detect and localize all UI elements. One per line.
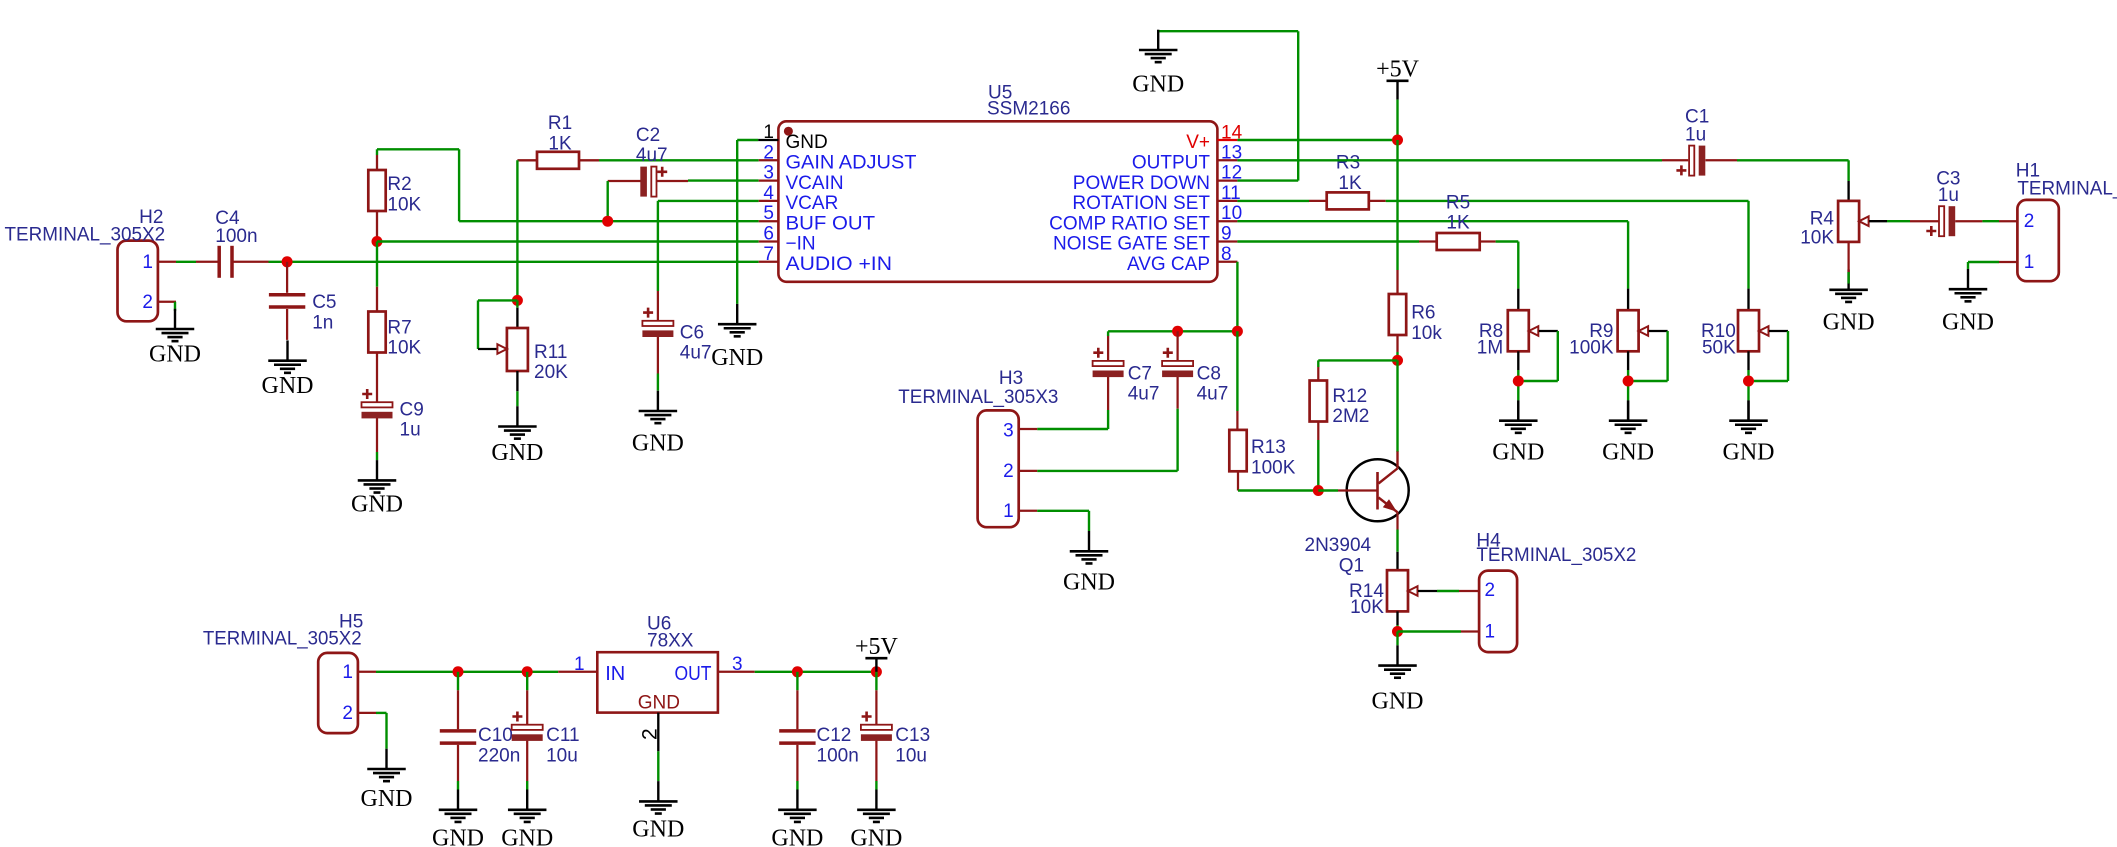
wire R9 wiper loop [1628, 331, 1668, 381]
power +5V top symbol [1396, 81, 1398, 100]
junction node B (-IN) [372, 236, 383, 247]
junction C12 node [792, 666, 803, 677]
wire R11 wiper loop [478, 300, 517, 349]
wire R1 right to U5 pin 2 (GAIN ADJUST) [599, 159, 759, 161]
svg-text:1K: 1K [1446, 212, 1470, 233]
svg-text:GND: GND [262, 373, 314, 399]
wire POWER DOWN net to top ground [1158, 31, 1298, 180]
ground GND below R9 [1602, 400, 1654, 465]
wire R14 bottom to node F [1396, 611, 1398, 631]
svg-text:GND: GND [711, 345, 763, 371]
wire R4 bottom to ground [1847, 242, 1849, 284]
wire C13 to ground [875, 781, 877, 790]
svg-text:4u7: 4u7 [1197, 384, 1229, 405]
svg-text:GND: GND [632, 817, 684, 843]
svg-text:−IN: −IN [786, 234, 816, 255]
svg-text:1: 1 [2024, 252, 2035, 273]
wire R12 top to node E [1318, 360, 1397, 380]
svg-text:1: 1 [574, 654, 585, 675]
wire R4 wiper to C3 [1869, 220, 1910, 222]
svg-text:C10: C10 [478, 725, 513, 746]
svg-text:R3: R3 [1336, 153, 1360, 174]
svg-text:GND: GND [1823, 310, 1875, 336]
svg-text:7: 7 [763, 244, 774, 265]
svg-text:78XX: 78XX [647, 631, 694, 652]
U5 pin 6 -IN [759, 224, 816, 255]
junction R9 bottom [1623, 376, 1634, 387]
ground GND below R4 [1823, 270, 1875, 336]
ground GND top [1132, 30, 1184, 98]
svg-text:4u7: 4u7 [680, 343, 712, 364]
resistor R1 1K [517, 152, 599, 169]
svg-text:2: 2 [142, 292, 153, 313]
junction base node [1313, 485, 1324, 496]
capacitor C4 100n [196, 208, 269, 278]
wire C3 to H1 pin2 [1982, 220, 1999, 222]
svg-text:1: 1 [763, 122, 774, 143]
U6 pin 3 OUT lead [718, 654, 755, 675]
svg-text:SSM2166: SSM2166 [987, 99, 1070, 120]
svg-text:TERMINAL_305X2: TERMINAL_305X2 [5, 225, 166, 246]
ground GND below C9 [351, 460, 403, 517]
svg-text:GND: GND [632, 430, 684, 456]
svg-text:GND: GND [771, 826, 823, 847]
svg-text:R2: R2 [387, 174, 411, 195]
wire R2 bottom to node B [376, 239, 378, 242]
wire node F to H4 pin1 [1398, 630, 1462, 632]
U5 pin 1 GND [758, 122, 828, 153]
svg-text:GND: GND [1132, 72, 1184, 98]
U6 pin 1 IN lead [558, 654, 597, 675]
U5 pin 5 BUF OUT [759, 203, 876, 234]
svg-text:1u: 1u [1938, 185, 1959, 206]
op-amp U5 SSM2166 body [778, 83, 1217, 282]
capacitor C7 4u7 polarized [1093, 336, 1160, 410]
ground GND below C11 [501, 790, 553, 847]
svg-text:1n: 1n [312, 312, 333, 333]
svg-text:10K: 10K [387, 338, 421, 359]
junction node D (BUF OUT / C2) [602, 216, 613, 227]
wire R14 wiper to H4 pin2 [1418, 590, 1459, 592]
wire H2 pin2 down to ground [174, 302, 176, 311]
wire R8 wiper loop [1518, 331, 1558, 381]
svg-text:GND: GND [1723, 440, 1775, 466]
wire R13 bottom to base node [1238, 471, 1318, 490]
ground GND at H3 pin1 [1063, 531, 1115, 596]
ground GND below C5 [262, 340, 314, 398]
capacitor C13 10u polarized [861, 672, 930, 781]
wire net AUDIO+IN row to U5 pin 7 [287, 261, 759, 263]
svg-text:ROTATION SET: ROTATION SET [1072, 193, 1210, 214]
power +5V bottom symbol [875, 658, 877, 672]
svg-text:2: 2 [763, 142, 774, 163]
ground GND below C13 [850, 790, 902, 847]
wire R2 top to BUF OUT vertical [377, 149, 459, 221]
wire C10 to ground [457, 781, 459, 790]
svg-text:220n: 220n [478, 745, 520, 766]
svg-text:GND: GND [1492, 440, 1544, 466]
svg-text:1u: 1u [1685, 125, 1706, 146]
wire C6 to ground [657, 374, 659, 391]
svg-text:R11: R11 [534, 342, 567, 363]
U5 pin 10 COMP RATIO SET [1049, 203, 1242, 234]
connector H3 TERMINAL_305X3 [898, 368, 1058, 527]
svg-text:C2: C2 [636, 125, 660, 146]
wire C4 to node A [269, 261, 288, 263]
svg-text:4u7: 4u7 [1128, 384, 1160, 405]
wire net BUF OUT row to U5 pin 5 [459, 220, 759, 222]
svg-text:R4: R4 [1810, 209, 1835, 230]
svg-text:100n: 100n [215, 226, 257, 247]
junction C11 node [522, 666, 533, 677]
svg-text:10K: 10K [1800, 228, 1834, 249]
U5 pin 9 NOISE GATE SET [1053, 224, 1237, 255]
svg-text:OUT: OUT [675, 663, 712, 685]
svg-text:10K: 10K [387, 194, 421, 215]
svg-text:C7: C7 [1128, 363, 1152, 384]
svg-text:2N3904: 2N3904 [1305, 535, 1372, 556]
svg-text:100n: 100n [817, 745, 859, 766]
capacitor C11 10u polarized [512, 672, 580, 781]
junction node A [282, 256, 293, 267]
svg-text:5: 5 [763, 203, 774, 224]
ground GND below C6 [632, 391, 684, 457]
svg-text:1: 1 [1485, 622, 1496, 643]
svg-text:+5V: +5V [855, 634, 899, 660]
transistor Q1 2N3904 [1305, 451, 1409, 576]
svg-text:GND: GND [491, 440, 543, 466]
wire C2 left down to BUF OUT row [607, 181, 609, 221]
ground GND at H5 pin2 [361, 749, 413, 812]
svg-text:6: 6 [763, 224, 774, 245]
svg-text:GND: GND [1602, 440, 1654, 466]
svg-text:Q1: Q1 [1339, 556, 1364, 577]
resistor R7 10K [368, 287, 385, 357]
U5 pin 3 VCAIN [759, 163, 844, 194]
wire +5V rail down to R6 [1396, 140, 1398, 270]
junction +5V / V+ [1392, 135, 1403, 146]
svg-text:VCAR: VCAR [786, 193, 839, 214]
junction AVG CAP node [1232, 326, 1243, 337]
svg-text:GND: GND [1942, 310, 1994, 336]
svg-text:2: 2 [1003, 461, 1014, 482]
wire R8 bottom to ground [1517, 351, 1519, 420]
junction C8 top [1172, 326, 1183, 337]
svg-text:AVG CAP: AVG CAP [1127, 254, 1210, 275]
wire C11 to ground [526, 781, 528, 790]
ground GND below R14 [1372, 645, 1424, 714]
potentiometer R8 1M [1508, 310, 1539, 351]
wire NOISE GATE SET to R5 [1237, 240, 1419, 242]
wire R11 bottom to ground [516, 371, 518, 406]
svg-text:GND: GND [351, 492, 403, 518]
svg-text:R13: R13 [1251, 437, 1286, 458]
svg-text:2: 2 [342, 703, 353, 724]
svg-text:NOISE GATE SET: NOISE GATE SET [1053, 234, 1210, 255]
svg-text:1K: 1K [548, 134, 572, 155]
svg-text:C11: C11 [546, 725, 579, 746]
svg-text:1: 1 [342, 662, 353, 683]
wire ROTATION SET to R3 [1237, 200, 1309, 202]
svg-text:POWER DOWN: POWER DOWN [1073, 173, 1210, 194]
voltage regulator U6 78XX [597, 614, 718, 714]
wire R10 bottom to ground [1747, 351, 1749, 420]
wire H3 pin1 to ground [1037, 511, 1089, 531]
wire AVG CAP down to C7/C8 node [1236, 262, 1238, 332]
U5 pin 13 OUTPUT [1132, 142, 1242, 173]
wire net VCAR row to U5 pin 4 [658, 201, 759, 291]
svg-text:50K: 50K [1702, 338, 1736, 359]
svg-text:1u: 1u [400, 420, 421, 441]
svg-text:GND: GND [786, 132, 828, 153]
svg-text:TERMINAL_305X2: TERMINAL_305X2 [1476, 545, 1636, 566]
resistor R6 10k [1389, 270, 1406, 352]
svg-text:BUF OUT: BUF OUT [786, 213, 876, 234]
svg-text:GND: GND [432, 826, 484, 847]
svg-text:V+: V+ [1186, 132, 1210, 153]
svg-text:TERMINAL_305X2: TERMINAL_305X2 [2017, 179, 2117, 200]
resistor R2 10K [368, 155, 385, 239]
wire node down to R13 [1236, 331, 1238, 430]
U5 pin 7 AUDIO +IN [759, 244, 892, 275]
ground GND below R11 [491, 406, 543, 466]
wire R9 bottom to ground [1627, 351, 1629, 420]
svg-text:3: 3 [732, 654, 743, 675]
svg-text:C6: C6 [680, 322, 704, 343]
ground GND at U5 pin 1 [711, 304, 763, 371]
svg-text:1: 1 [142, 252, 153, 273]
svg-text:GND: GND [149, 342, 201, 368]
connector H1 TERMINAL_305X2 [1999, 161, 2117, 282]
svg-text:R6: R6 [1411, 303, 1435, 324]
svg-text:8: 8 [1221, 244, 1232, 265]
wire C8 bottom to H3 pin2 [1037, 409, 1177, 471]
ground GND below R10 [1723, 400, 1775, 465]
U5 pin 11 ROTATION SET [1072, 183, 1240, 214]
svg-text:C8: C8 [1197, 363, 1221, 384]
wire U6 OUT to +5V rail [755, 671, 877, 673]
svg-text:AUDIO +IN: AUDIO +IN [786, 254, 893, 275]
wire OUTPUT row to C1 [1237, 159, 1662, 161]
wire R1 left down to R11 top [516, 160, 518, 300]
capacitor C1 1u polarized [1662, 106, 1737, 175]
svg-text:10u: 10u [546, 745, 578, 766]
svg-text:100K: 100K [1569, 338, 1614, 359]
ground GND below R8 [1492, 400, 1544, 465]
svg-text:C12: C12 [817, 725, 852, 746]
potentiometer R11 20K [497, 328, 528, 371]
wire H2 pin1 to C4 [176, 261, 196, 263]
wire C7 C8 top row [1108, 331, 1237, 336]
svg-text:R12: R12 [1332, 386, 1367, 407]
wire node E down to Q1 collector [1396, 360, 1398, 452]
wire Q1 emitter to R14 [1396, 512, 1398, 570]
wire H5 pin2 to ground [376, 713, 387, 749]
connector H4 TERMINAL_305X2 [1459, 531, 1636, 653]
U5 pin 4 VCAR [759, 183, 839, 214]
svg-text:3: 3 [763, 163, 774, 184]
svg-text:TERMINAL_305X3: TERMINAL_305X3 [898, 387, 1058, 408]
wire node B down to R7 [376, 242, 378, 287]
svg-text:10u: 10u [895, 745, 927, 766]
svg-text:GND: GND [361, 786, 413, 812]
ground GND at H2 pin2 [149, 309, 201, 368]
svg-text:1: 1 [1003, 501, 1014, 522]
capacitor C8 4u7 polarized [1162, 331, 1228, 408]
svg-text:GND: GND [638, 693, 680, 714]
svg-text:100K: 100K [1251, 458, 1296, 479]
wire V+ row to +5V node [1237, 139, 1397, 141]
potentiometer R4 10K [1838, 201, 1869, 242]
svg-text:20K: 20K [534, 362, 568, 383]
connector H2 TERMINAL_305X2 [5, 207, 177, 321]
svg-text:+5V: +5V [1376, 57, 1420, 83]
potentiometer R9 100K [1618, 310, 1649, 351]
capacitor C3 1u polarized [1910, 168, 1982, 236]
junction node E (R6/R12/collector) [1392, 355, 1403, 366]
svg-text:C9: C9 [400, 399, 424, 420]
wire C1 to R4 top [1737, 160, 1849, 201]
svg-text:GND: GND [1372, 689, 1424, 715]
U5 pin 2 GAIN ADJUST [759, 142, 917, 173]
wire +5V to junction [1396, 100, 1398, 140]
svg-text:VCAIN: VCAIN [786, 173, 844, 194]
U5 pin 8 AVG CAP [1127, 244, 1237, 275]
wire COMP RATIO SET to R9 top [1237, 221, 1628, 310]
resistor R13 100K [1229, 430, 1246, 471]
potentiometer R14 10K [1387, 570, 1418, 611]
junction node F (R14 bottom) [1392, 626, 1403, 637]
capacitor C12 100n [779, 672, 859, 781]
wire node C to R11 [516, 300, 518, 328]
wire H5 pin1 to U6 IN [376, 671, 558, 673]
wire R6 bottom to node E [1396, 352, 1398, 360]
wire net -IN row to U5 pin 6 [377, 240, 759, 242]
svg-text:3: 3 [1003, 420, 1014, 441]
svg-text:C5: C5 [312, 292, 336, 313]
svg-text:4: 4 [763, 183, 774, 204]
ground GND below C12 [771, 790, 823, 847]
wire C2 right to U5 pin 3 (VCAIN) [688, 179, 759, 181]
svg-text:10K: 10K [1350, 597, 1384, 618]
svg-text:4u7: 4u7 [636, 145, 668, 166]
capacitor C10 220n [440, 672, 520, 781]
ground GND below C10 [432, 790, 484, 847]
U5 pin 12 POWER DOWN [1073, 163, 1242, 194]
svg-text:1M: 1M [1477, 338, 1503, 359]
junction R10 bottom [1743, 376, 1754, 387]
svg-text:TERMINAL_305X2: TERMINAL_305X2 [203, 628, 362, 649]
resistor R12 2M2 [1310, 381, 1327, 422]
svg-text:10k: 10k [1411, 323, 1442, 344]
U6 pin 2 GND lead [639, 713, 662, 781]
svg-text:GND: GND [1063, 570, 1115, 596]
resistor R5 1K [1419, 233, 1496, 250]
wire C9 to ground [376, 452, 378, 460]
potentiometer R10 50K [1738, 310, 1769, 351]
connector H5 TERMINAL_305X2 [203, 612, 376, 734]
svg-text:1K: 1K [1338, 173, 1362, 194]
svg-text:IN: IN [605, 663, 625, 685]
junction C13 node [871, 666, 882, 677]
svg-text:2: 2 [2024, 211, 2035, 232]
svg-text:COMP RATIO SET: COMP RATIO SET [1049, 213, 1210, 234]
svg-text:2: 2 [1485, 580, 1496, 601]
svg-text:2: 2 [639, 728, 662, 740]
capacitor C6 4u7 polarized [642, 291, 711, 374]
ground GND below U6 [632, 781, 684, 842]
wire C12 to ground [796, 781, 798, 790]
svg-text:OUTPUT: OUTPUT [1132, 153, 1211, 174]
svg-text:R7: R7 [387, 317, 411, 338]
svg-text:R5: R5 [1446, 193, 1470, 214]
wire node F to ground [1396, 632, 1398, 646]
wire H1 pin1 to ground [1968, 262, 1999, 269]
svg-text:9: 9 [1221, 224, 1232, 245]
junction R8 bottom [1513, 376, 1524, 387]
capacitor C2 4u7 polarized [608, 125, 688, 197]
junction C10 node [453, 666, 464, 677]
wire C7 bottom to H3 pin3 [1037, 410, 1108, 429]
svg-text:GAIN ADJUST: GAIN ADJUST [786, 153, 917, 174]
svg-text:GND: GND [501, 826, 553, 847]
wire R10 wiper loop [1749, 331, 1789, 381]
svg-text:C13: C13 [895, 725, 930, 746]
ground GND at H1 pin1 [1942, 269, 1994, 336]
svg-text:R1: R1 [548, 113, 572, 134]
capacitor C9 1u polarized [362, 357, 424, 452]
resistor R3 1K [1309, 192, 1386, 209]
wire base node to Q1 base [1318, 489, 1338, 491]
wire R12 bottom to base node [1317, 422, 1319, 491]
wire U5 pin1 GND net [737, 140, 758, 304]
svg-text:GND: GND [850, 826, 902, 847]
U5 pin 14 V+ [1186, 123, 1242, 154]
wire R3 to R10 top [1386, 201, 1749, 310]
wire R5 to R8 top [1496, 242, 1519, 311]
junction node C (R11 top) [512, 295, 523, 306]
capacitor C5 1n [269, 262, 337, 340]
svg-text:2M2: 2M2 [1332, 406, 1369, 427]
